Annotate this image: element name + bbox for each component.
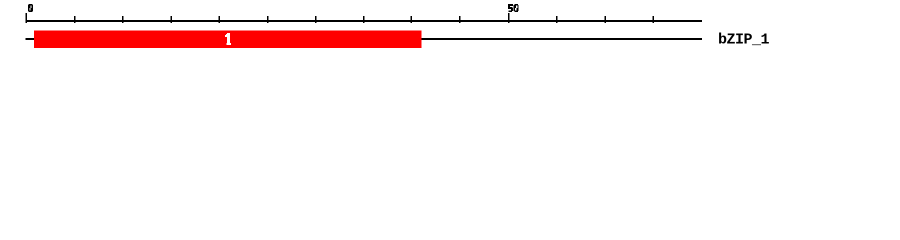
ruler minor tick 60 (604, 16, 606, 23)
domain box (red) (34, 31, 422, 48)
ruler minor tick 30 (315, 16, 317, 23)
ruler label 0 (bitmap-style slashed zero) (28, 4, 33, 12)
ruler minor tick 55 (556, 16, 558, 23)
ruler scale line (25, 20, 702, 22)
ruler minor tick 20 (219, 16, 221, 23)
background (0, 0, 900, 58)
domain number 1 (white) (225, 33, 231, 45)
svg-text:bZIP_1: bZIP_1 (718, 32, 770, 49)
ruler major tick 0 (25, 13, 27, 23)
ruler major tick 50 (508, 13, 510, 23)
ruler minor tick 65 (653, 16, 655, 23)
ruler minor tick 35 (363, 16, 365, 23)
ruler minor tick 45 (459, 16, 461, 23)
ruler minor tick 40 (411, 16, 413, 23)
ruler label 50 : digit 0 (514, 4, 519, 12)
protein backbone line (25, 38, 702, 40)
ruler minor tick 5 (74, 16, 76, 23)
ruler minor tick 25 (267, 16, 269, 23)
ruler minor tick 10 (122, 16, 124, 23)
ruler label 50 : digit 5 (508, 4, 513, 12)
ruler minor tick 15 (170, 16, 172, 23)
